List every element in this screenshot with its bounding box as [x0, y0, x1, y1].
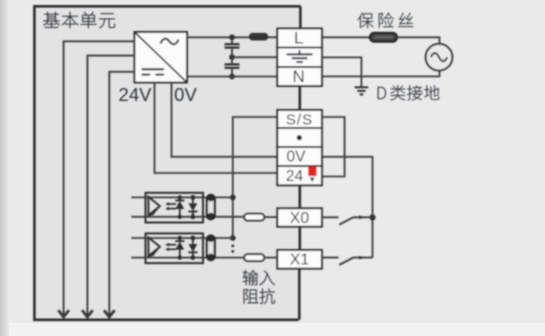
diode up row 2 [175, 236, 184, 260]
wire AC source to N terminal [322, 70, 440, 77]
ellipsis continuation dots [231, 244, 234, 252]
terminal 0V [277, 147, 322, 166]
wire stubs left row 1 [131, 197, 145, 216]
wire spine 24V to X0 [298, 185, 301, 209]
wire L line (PSU to L terminal) [187, 36, 278, 38]
svg-text:24: 24 [286, 168, 304, 185]
input circuit box row 1 (optocoupler) [146, 193, 204, 223]
earth ground symbol (D class) [355, 87, 369, 94]
input circuit box row 2 (optocoupler) [146, 233, 204, 263]
terminal L [277, 29, 322, 48]
svg-text:X1: X1 [290, 252, 310, 269]
AC source [426, 44, 453, 71]
wire loop 3 (to extension unit) [109, 72, 134, 310]
terminal ground (with symbol) [277, 48, 322, 68]
wire S/S to 24V jumper loop [322, 117, 345, 177]
label 输入阻抗 (input impedance) [243, 270, 275, 304]
enclosure frame 基本单元 (basic unit) [34, 6, 300, 320]
wire top rail row 2 [146, 237, 233, 239]
terminal 24V with red cursor [277, 166, 322, 185]
wire resistor to X0 [264, 216, 277, 218]
arrowhead loop 1 [58, 310, 69, 317]
junction node switch rail [369, 214, 375, 220]
wire loop 1 (to extension unit) [64, 41, 135, 310]
wire S/S terminal to common rail [233, 117, 278, 238]
wire loop 2 (to extension unit) [87, 56, 134, 310]
wire resistor to X1 [264, 257, 277, 259]
svg-text:N: N [293, 67, 305, 86]
resistor input impedance X0 [244, 214, 264, 221]
wire stubs left row 2 [131, 238, 145, 258]
terminal S/S [277, 110, 322, 128]
switch contact X1 [322, 256, 373, 265]
wire fuse to AC source [397, 37, 440, 46]
power supply unit (AC/DC converter) [135, 32, 188, 83]
junction node on ground line [229, 54, 235, 60]
svg-text:0V: 0V [174, 84, 197, 105]
diode down row 1 [188, 195, 197, 219]
resistor input impedance X1 [244, 254, 264, 261]
wire ground line (filter to ground terminal) [232, 56, 278, 58]
svg-text:24V: 24V [119, 84, 153, 105]
svg-text:0V: 0V [287, 149, 307, 166]
wire L terminal to fuse [322, 36, 373, 38]
terminal blank (dot) [277, 128, 322, 147]
light arrows row 2 [165, 243, 176, 251]
label 基本单元 [43, 12, 115, 28]
capacitor C1 [225, 37, 240, 57]
wire bottom rail row 2 [146, 257, 245, 259]
label 24V (PSU output) [119, 84, 153, 105]
capacitor C2 [225, 57, 240, 76]
label 保险丝 (fuse) [357, 13, 413, 28]
svg-text:L: L [294, 29, 303, 48]
filter component row 2 [207, 235, 215, 261]
diode down row 2 [188, 236, 197, 260]
noise filter bead on L line [249, 33, 268, 41]
filter component row 1 [207, 194, 215, 220]
wire ground terminal to earth [322, 57, 362, 86]
wire spine N to S/S [298, 86, 301, 111]
terminal X1 [277, 250, 322, 269]
wire top rail row 1 [146, 196, 233, 198]
junction node rail row1 [230, 195, 236, 201]
wire bottom rail row 1 [146, 216, 245, 218]
svg-text:X0: X0 [290, 210, 310, 227]
wire 0V to input switches rail [322, 157, 373, 258]
junction node on L line [229, 34, 235, 40]
label 0V (PSU output) [174, 84, 197, 105]
switch contact X0 [322, 215, 373, 224]
light arrows row 1 [165, 202, 176, 210]
wire spine X0 to X1 [298, 227, 301, 251]
terminal N [277, 67, 322, 86]
phototransistor triangle row 1 [148, 197, 160, 216]
arrowhead loop 3 [104, 310, 115, 317]
wire N line (PSU to N terminal) [187, 76, 278, 78]
terminal X0 [277, 208, 322, 227]
svg-text:S/S: S/S [286, 111, 313, 128]
label D类接地 (class-D grounding) [378, 85, 439, 100]
wire 24V output to 24V terminal [155, 83, 278, 174]
wire spine X1 to frame bottom [298, 269, 301, 320]
junction node on N line [229, 74, 235, 80]
wire 0V output to 0V terminal [172, 83, 278, 157]
phototransistor triangle row 2 [148, 237, 160, 257]
diode up row 1 [175, 195, 184, 219]
junction node rail row2 [230, 235, 236, 241]
fuse F1 保险丝 [370, 33, 397, 42]
arrowhead loop 2 [82, 310, 93, 317]
